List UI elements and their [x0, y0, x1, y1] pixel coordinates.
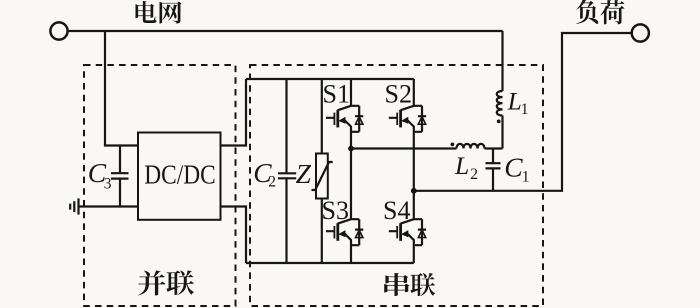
svg-text:DC/DC: DC/DC: [144, 159, 216, 189]
svg-text:3: 3: [104, 175, 112, 192]
svg-text:2: 2: [470, 166, 478, 183]
svg-text:S4: S4: [383, 196, 410, 225]
svg-text:Z: Z: [296, 158, 312, 189]
svg-text:L: L: [507, 86, 522, 115]
svg-text:2: 2: [268, 173, 276, 190]
svg-text:S3: S3: [322, 196, 349, 225]
svg-text:1: 1: [522, 169, 530, 186]
svg-text:S1: S1: [323, 79, 350, 108]
svg-text:S2: S2: [385, 79, 412, 108]
svg-text:C: C: [504, 152, 523, 183]
svg-text:L: L: [454, 151, 469, 180]
svg-text:1: 1: [521, 101, 529, 118]
